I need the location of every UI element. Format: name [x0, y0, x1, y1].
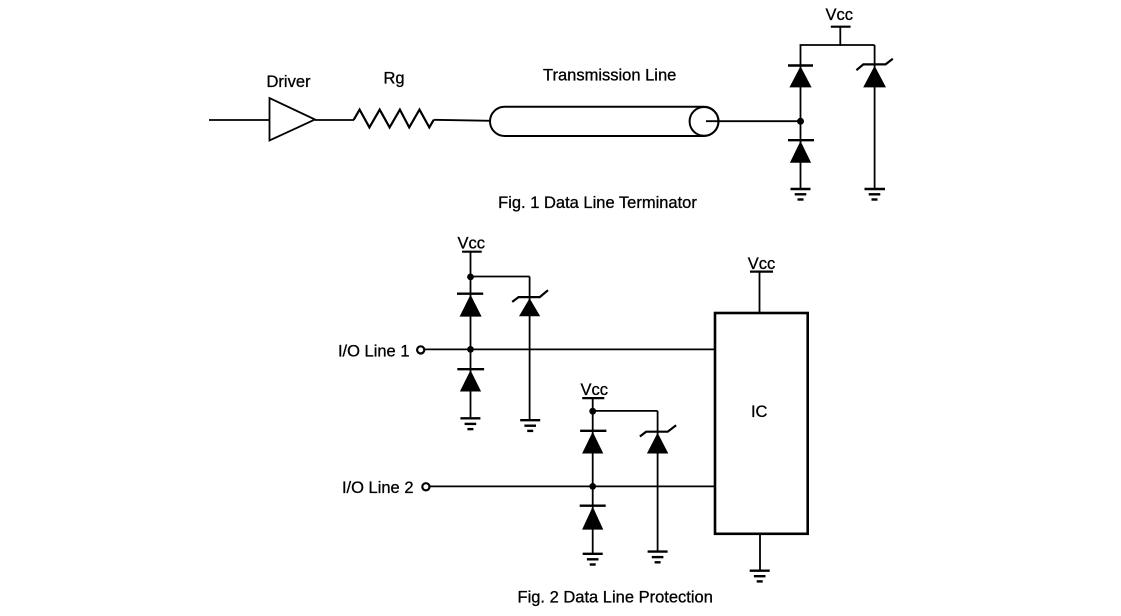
svg-text:Vcc: Vcc — [826, 6, 854, 24]
svg-text:I/O Line 1: I/O Line 1 — [338, 343, 410, 361]
terminal: I/O line 1 — [417, 346, 424, 353]
diode D2 triangle — [790, 141, 811, 163]
zener Z3 cathode bar with ticks — [640, 425, 676, 436]
wire: vertical diode chain 2 — [592, 398, 594, 554]
wire: I/O line 1 — [425, 348, 716, 350]
node: Vcc junction 1 — [467, 274, 474, 281]
wire: IC Vcc stub — [759, 272, 761, 313]
node: Vcc junction 2 — [589, 408, 596, 415]
wire: Rg to transmission line — [434, 120, 492, 121]
zener Z1 triangle — [863, 66, 886, 88]
node: data line junction — [797, 118, 804, 125]
power bar Vcc (IC) — [750, 271, 773, 273]
wire: to zener 1 — [471, 276, 530, 278]
ground (diode chain 1) — [460, 418, 480, 429]
ground (fig1 zener branch) — [865, 189, 886, 200]
wire: IC ground stub — [759, 534, 761, 571]
ground (zener 2) — [648, 552, 668, 563]
driver buffer (triangle) — [270, 98, 316, 141]
transmission line body — [490, 107, 719, 136]
svg-text:IC: IC — [751, 403, 768, 421]
diode D5 triangle — [582, 432, 603, 454]
ground (IC) — [750, 571, 770, 582]
power bar Vcc (I/O line 2) — [582, 397, 604, 399]
wire: vertical clamp branch — [800, 45, 802, 189]
wire: zener 2 vertical — [657, 411, 659, 552]
svg-text:Rg: Rg — [383, 69, 404, 87]
diode D1 cathode bar — [788, 64, 813, 66]
svg-text:Fig. 2 Data Line Protection: Fig. 2 Data Line Protection — [518, 589, 713, 607]
diode D4 triangle — [460, 370, 481, 391]
power bar Vcc (I/O line 1) — [462, 251, 482, 253]
zener Z2 cathode bar with ticks — [512, 290, 548, 302]
wire: to zener 2 — [593, 410, 658, 412]
transmission line end circle — [690, 107, 719, 136]
diode D6 triangle — [582, 507, 603, 530]
diode D5 cathode bar — [580, 430, 606, 432]
zener Z2 triangle — [519, 298, 540, 316]
node: I/O line 1 junction — [467, 346, 474, 353]
ground (zener 1) — [520, 420, 540, 431]
svg-text:Vcc: Vcc — [457, 234, 485, 252]
diode D2 cathode bar — [788, 139, 814, 141]
diode D4 cathode bar — [457, 368, 484, 370]
ground (fig1 diode branch) — [791, 189, 811, 200]
svg-text:Fig. 1 Data Line Terminator: Fig. 1 Data Line Terminator — [498, 194, 697, 212]
svg-text:I/O Line 2: I/O Line 2 — [342, 479, 414, 497]
diode D3 triangle — [460, 295, 482, 317]
svg-text:Transmission Line: Transmission Line — [543, 67, 676, 85]
wire: vertical diode chain 1 — [470, 252, 472, 419]
ground (diode chain 2) — [583, 554, 603, 565]
zener Z1 cathode bar with ticks — [856, 59, 892, 70]
IC U2 box — [715, 313, 808, 534]
terminal: I/O line 2 — [422, 483, 429, 490]
resistor Rg — [354, 110, 434, 128]
zener Z3 triangle — [647, 433, 668, 454]
diode D6 cathode bar — [580, 505, 606, 507]
wire: I/O line 2 — [430, 485, 716, 487]
wire: driver output to Rg — [315, 119, 354, 121]
wire: transmission line to node — [706, 120, 801, 122]
power bar Vcc — [831, 26, 851, 28]
wire: Vcc stub — [839, 27, 841, 46]
diode D3 cathode bar — [457, 293, 483, 295]
wire: driver input — [209, 119, 270, 121]
svg-text:Driver: Driver — [267, 73, 312, 91]
svg-text:Vcc: Vcc — [748, 255, 776, 273]
wire: Vcc rail — [800, 44, 875, 46]
wire: zener 1 vertical — [529, 277, 531, 421]
svg-text:Vcc: Vcc — [581, 381, 609, 399]
diode D1 triangle — [789, 66, 811, 87]
node: I/O line 2 junction — [589, 483, 596, 490]
wire: zener branch vertical — [874, 45, 876, 189]
